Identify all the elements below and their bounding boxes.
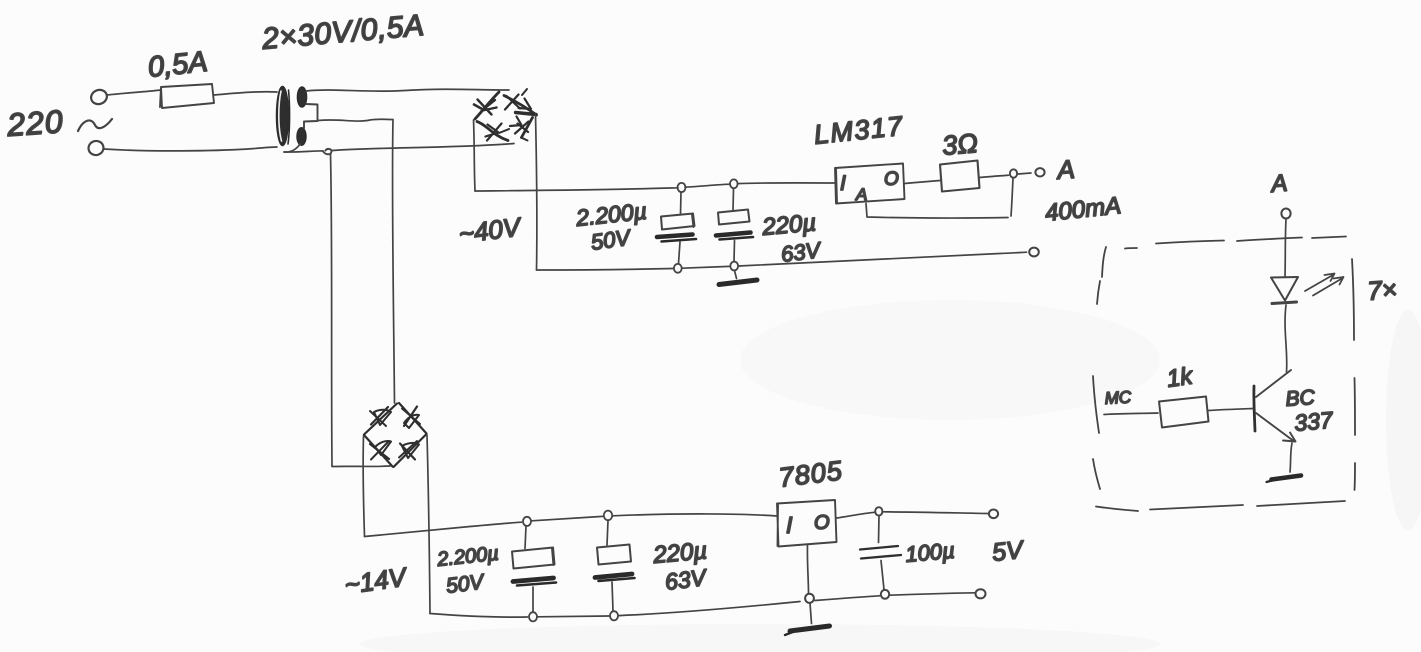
- regulator U1 LM317: [835, 164, 905, 204]
- dashed enclosure box (bottom edge): [1096, 501, 1345, 511]
- LED light arrow 2: [1313, 277, 1344, 296]
- svg-text:A: A: [855, 185, 867, 204]
- Q1 emitter stroke with arrow: [1256, 413, 1296, 442]
- junction on - rail at C2: [730, 262, 738, 271]
- transistor Q1 BC337 base bar: [1254, 386, 1255, 431]
- svg-text:0,5A: 0,5A: [146, 46, 209, 84]
- wire: R1 to output node: [980, 175, 1009, 177]
- capacitor C5 100u: [878, 516, 881, 543]
- resistor R2 1k: [1159, 397, 1209, 428]
- svg-text:7×: 7×: [1366, 274, 1398, 306]
- svg-text:220: 220: [5, 103, 65, 143]
- svg-text:A: A: [1054, 154, 1075, 185]
- B2 diode D6 (top-right edge): [399, 403, 427, 434]
- wire: U1 output to R1: [905, 181, 941, 184]
- B1 diode D3 (bottom-left edge): [477, 122, 508, 141]
- junction at 100u top: [875, 507, 882, 515]
- B2 diode D8 (bottom-right edge): [394, 434, 427, 467]
- wire: centre tap down to bridge B2: [392, 120, 394, 403]
- wire: node to terminal: [1018, 173, 1031, 174]
- LED D9: [1271, 277, 1298, 301]
- dashed enclosure box (left edge): [1093, 247, 1106, 489]
- junction on + rail at C4: [604, 511, 612, 521]
- junction loop on secondary bottom wire: [323, 149, 332, 154]
- wire: R2 to Q1 base: [1209, 409, 1254, 411]
- terminal: top branch negative output: [1029, 248, 1039, 257]
- wire: top branch negative rail: [537, 252, 1027, 270]
- svg-text:63V: 63V: [663, 564, 709, 595]
- svg-text:O: O: [814, 512, 830, 534]
- wire: terminal to LED: [1285, 219, 1286, 276]
- junction: feedback node: [1010, 169, 1017, 177]
- Q1 collector stroke: [1256, 370, 1291, 397]
- LED light arrow 1: [1305, 274, 1335, 292]
- wire: tap loop down to bridge B2: [331, 154, 333, 466]
- terminal: mains N: [87, 139, 105, 156]
- terminal: LED anode A: [1281, 209, 1290, 219]
- junction on + rail at C3: [523, 517, 531, 526]
- transformer T1 secondary winding upper: [297, 87, 306, 107]
- svg-text:220µ: 220µ: [760, 209, 817, 241]
- wire: B1 - output down: [536, 115, 537, 271]
- capacitor C3 2200u/50V: [525, 526, 526, 549]
- wire: U2 output: [837, 512, 875, 518]
- junction on + rail at C2: [730, 179, 738, 188]
- wire: B1 + output down: [474, 120, 476, 191]
- ground below Q1: [1272, 476, 1302, 480]
- AC tilde symbol: [78, 119, 112, 131]
- wire: secondary top to bridge B1 AC input: [306, 89, 509, 91]
- resistor R1 3ohm: [940, 161, 980, 192]
- ground below U2: [810, 603, 812, 624]
- wire: L terminal to fuse: [107, 90, 161, 95]
- junction: U2 ground node: [805, 594, 814, 603]
- terminal: output A: [1035, 168, 1044, 176]
- B2 diode D5 (top-left edge): [364, 404, 397, 435]
- wire: U2 ground pin down: [807, 545, 808, 593]
- wire: top branch positive rail: [475, 183, 835, 191]
- svg-text:A: A: [1268, 170, 1288, 198]
- svg-text:BC: BC: [1285, 386, 1317, 411]
- svg-text:100µ: 100µ: [904, 538, 955, 567]
- transformer T1 primary winding: [277, 87, 290, 146]
- transformer T1 centre-tap bracket: [304, 104, 318, 128]
- junction on - rail at C3: [529, 612, 537, 621]
- wire: emitter down to ground: [1290, 443, 1292, 472]
- wire: U1 adjust feedback: [866, 178, 1013, 218]
- wire: bottom feed into bridge B2: [332, 465, 390, 468]
- junction on + rail at C1: [678, 183, 686, 192]
- ground below C2: [735, 271, 737, 279]
- wire: fuse to transformer primary: [214, 92, 277, 95]
- svg-text:I: I: [840, 172, 846, 195]
- svg-text:50V: 50V: [445, 570, 487, 598]
- wire: N terminal to transformer primary: [104, 147, 277, 151]
- fuse F1 0,5A: [160, 84, 214, 108]
- wire: MC to R2: [1104, 413, 1158, 415]
- B1 diode D4 (bottom-right edge): [522, 118, 533, 138]
- junction on - rail at C4: [610, 611, 618, 620]
- junction on - rail at C5: [881, 590, 889, 599]
- B2 diode D7 (bottom-left edge): [364, 435, 393, 467]
- terminal: +5V output: [989, 510, 998, 519]
- wire: bottom branch positive rail: [365, 514, 778, 537]
- regulator U2 7805: [777, 500, 837, 547]
- dashed enclosure box (right edge): [1352, 259, 1355, 490]
- svg-text:337: 337: [1293, 407, 1335, 436]
- terminal: bottom branch negative output: [976, 589, 986, 598]
- wire: secondary bottom run to bridge B1: [284, 151, 323, 152]
- capacitor C2 220u/63V: [732, 189, 735, 211]
- terminal: mains L: [89, 88, 109, 107]
- transformer T1 secondary winding lower: [297, 128, 306, 146]
- svg-text:MC: MC: [1104, 388, 1132, 408]
- svg-text:63V: 63V: [780, 237, 824, 267]
- capacitor C1 2200u/50V: [680, 192, 683, 215]
- wire: LED cathode to Q1 collector: [1285, 305, 1287, 372]
- wire: centre tap horizontal: [318, 119, 393, 121]
- dashed enclosure box (top edge): [1125, 237, 1346, 249]
- svg-text:5V: 5V: [991, 536, 1027, 567]
- wire: to +5V terminal: [883, 512, 988, 514]
- wire: loop to bridge B1 lower AC input: [332, 144, 514, 151]
- wire: B2 + output down: [363, 436, 364, 537]
- svg-text:I: I: [786, 512, 793, 538]
- B1 diode D1 (top-left edge): [475, 92, 499, 119]
- bridge rectifier B2: [364, 403, 427, 467]
- bridge rectifier B1: [474, 89, 537, 141]
- svg-text:O: O: [884, 169, 899, 190]
- wire: secondary bottom lead: [284, 144, 300, 152]
- junction on - rail at C1: [674, 264, 682, 273]
- B1 diode D2 (top-right edge): [504, 96, 537, 116]
- svg-text:3Ω: 3Ω: [941, 128, 979, 161]
- wire: B2 - output down: [427, 435, 430, 614]
- wire: bottom branch negative rail: [430, 593, 975, 617]
- capacitor C4 220u/63V (bottom): [607, 521, 608, 546]
